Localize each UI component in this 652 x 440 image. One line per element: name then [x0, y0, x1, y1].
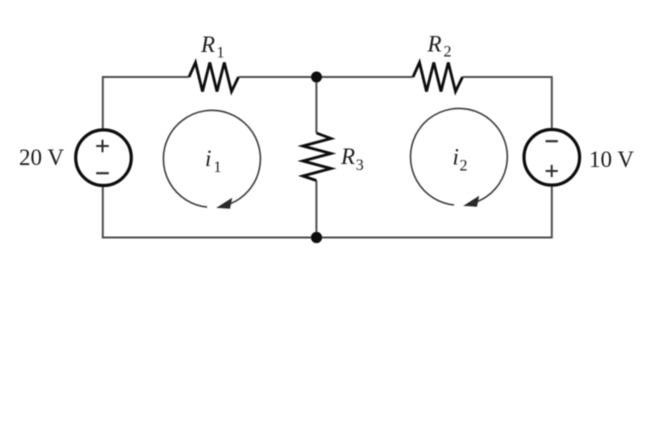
V2 plus sign [546, 165, 558, 177]
svg-text:i: i [205, 146, 211, 171]
wire bottom [102, 237, 552, 239]
svg-text:2: 2 [460, 158, 468, 175]
svg-text:R: R [200, 32, 215, 57]
wire top-middle segment (R1 to node A) [239, 76, 414, 78]
svg-text:10 V: 10 V [589, 147, 634, 172]
svg-text:R: R [427, 32, 442, 57]
svg-text:R: R [340, 144, 355, 169]
svg-text:2: 2 [444, 44, 452, 61]
resistor R3 [303, 133, 331, 181]
node B (bottom junction) [311, 232, 322, 243]
V1 minus sign [96, 172, 109, 174]
mesh current loop i2 arrowhead [463, 196, 479, 207]
V1 plus sign [96, 140, 109, 153]
voltage source V2 (10 V) [524, 130, 580, 186]
svg-text:1: 1 [214, 159, 222, 176]
wire left rail upper [102, 76, 104, 128]
svg-text:1: 1 [217, 45, 225, 62]
resistor R2 [413, 63, 463, 92]
voltage source V1 (20 V) [76, 130, 132, 186]
wire middle branch upper [315, 77, 317, 133]
mesh current loop i1 arrowhead [216, 198, 232, 209]
svg-text:i: i [453, 145, 459, 170]
mesh current loop i2 arc [411, 108, 508, 205]
resistor R1 [189, 63, 239, 92]
wire right rail lower [551, 187, 553, 239]
wire top-left segment [102, 76, 189, 78]
svg-text:20 V: 20 V [19, 145, 64, 170]
wire middle branch lower [315, 181, 317, 238]
wire left rail lower [102, 187, 104, 238]
svg-text:3: 3 [356, 157, 364, 174]
mesh current loop i1 arc [163, 110, 260, 207]
wire right rail upper [551, 76, 553, 128]
wire top-right segment (R2 to corner) [463, 76, 552, 78]
node A (top junction) [311, 72, 322, 83]
V2 minus sign [546, 140, 558, 142]
